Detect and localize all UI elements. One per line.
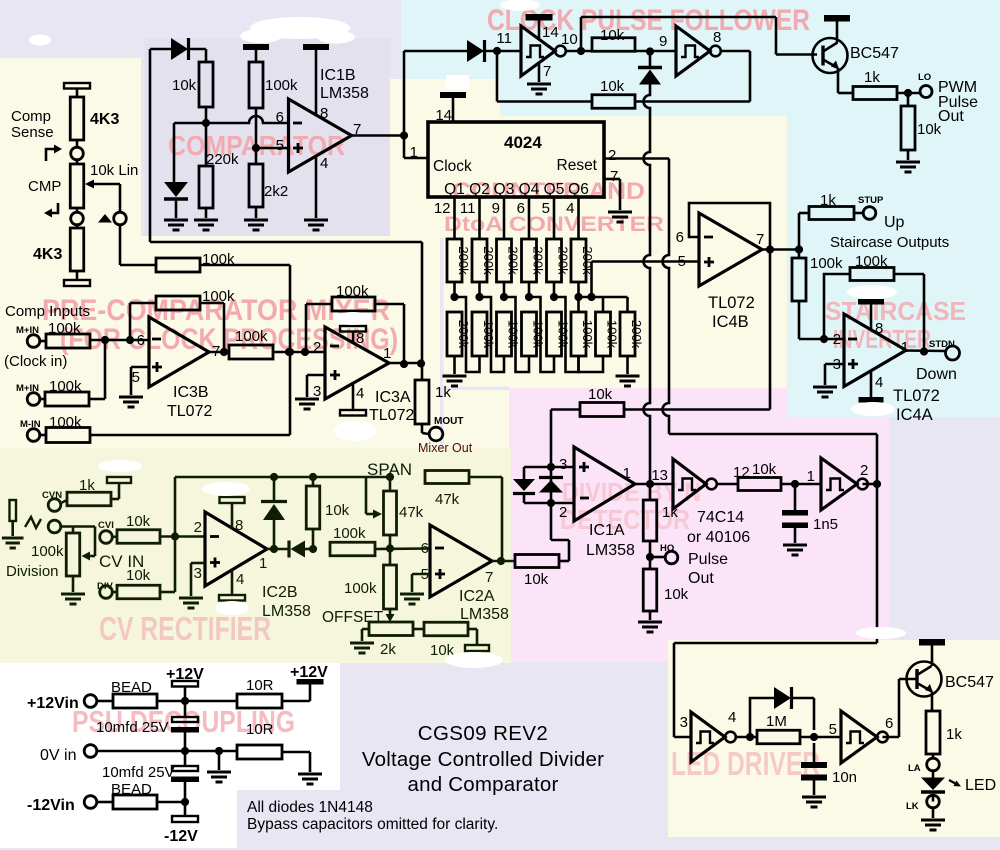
svg-text:-12V: -12V bbox=[164, 828, 198, 845]
svg-text:1k: 1k bbox=[864, 69, 880, 86]
svg-text:10k: 10k bbox=[325, 502, 350, 519]
svg-text:CMP: CMP bbox=[28, 178, 61, 195]
svg-text:4: 4 bbox=[236, 571, 244, 588]
svg-text:100k: 100k bbox=[556, 320, 571, 349]
svg-text:10R: 10R bbox=[246, 721, 274, 738]
svg-text:Bypass capacitors omitted for: Bypass capacitors omitted for clarity. bbox=[247, 816, 498, 833]
svg-text:74C14: 74C14 bbox=[697, 509, 744, 526]
svg-text:SPAN: SPAN bbox=[367, 460, 412, 479]
svg-text:8: 8 bbox=[235, 517, 243, 534]
svg-text:Out: Out bbox=[688, 570, 714, 587]
svg-text:Comp Inputs: Comp Inputs bbox=[5, 303, 90, 320]
svg-text:10k Lin: 10k Lin bbox=[90, 162, 138, 179]
svg-text:7: 7 bbox=[543, 63, 551, 80]
svg-text:4: 4 bbox=[875, 374, 883, 391]
svg-text:200k: 200k bbox=[506, 246, 521, 275]
svg-text:IC2B: IC2B bbox=[262, 584, 298, 601]
svg-text:1: 1 bbox=[259, 555, 267, 572]
svg-text:STAIRCASE: STAIRCASE bbox=[825, 296, 966, 326]
svg-text:6: 6 bbox=[517, 200, 525, 217]
svg-text:2k: 2k bbox=[380, 641, 396, 658]
svg-text:8: 8 bbox=[356, 330, 364, 347]
svg-text:BC547: BC547 bbox=[945, 674, 994, 691]
svg-text:+12V: +12V bbox=[290, 664, 328, 681]
svg-text:5: 5 bbox=[678, 253, 686, 270]
svg-text:IC4A: IC4A bbox=[896, 406, 933, 424]
svg-text:Sense: Sense bbox=[11, 124, 54, 141]
svg-text:IC3A: IC3A bbox=[375, 389, 411, 406]
svg-text:100k: 100k bbox=[531, 320, 546, 349]
svg-text:100k: 100k bbox=[31, 543, 64, 560]
svg-text:LM358: LM358 bbox=[586, 542, 635, 559]
svg-text:100k: 100k bbox=[605, 320, 620, 349]
svg-text:LO: LO bbox=[918, 72, 931, 83]
svg-text:or 40106: or 40106 bbox=[687, 529, 750, 546]
svg-text:47k: 47k bbox=[435, 491, 460, 508]
svg-text:10k: 10k bbox=[600, 78, 625, 95]
svg-text:2: 2 bbox=[833, 331, 841, 348]
svg-text:and Comparator: and Comparator bbox=[408, 773, 559, 796]
svg-text:LA: LA bbox=[908, 763, 921, 774]
svg-text:100k: 100k bbox=[265, 77, 298, 94]
svg-text:1k: 1k bbox=[820, 192, 836, 209]
svg-text:Q6: Q6 bbox=[568, 181, 589, 198]
svg-text:STDN: STDN bbox=[929, 339, 955, 350]
svg-text:Down: Down bbox=[916, 366, 957, 383]
svg-text:Q5: Q5 bbox=[544, 181, 565, 198]
svg-text:8: 8 bbox=[320, 105, 328, 122]
svg-text:Clock: Clock bbox=[433, 158, 472, 175]
svg-text:3: 3 bbox=[194, 565, 202, 582]
svg-text:4024: 4024 bbox=[504, 133, 542, 152]
svg-text:7: 7 bbox=[610, 168, 618, 185]
svg-text:1: 1 bbox=[383, 345, 391, 362]
svg-text:200k: 200k bbox=[556, 246, 571, 275]
svg-text:9: 9 bbox=[659, 33, 667, 50]
svg-text:5: 5 bbox=[276, 137, 284, 154]
svg-text:1k: 1k bbox=[435, 384, 451, 401]
svg-text:IC4B: IC4B bbox=[712, 313, 749, 331]
svg-text:Q2: Q2 bbox=[469, 181, 490, 198]
svg-text:LED: LED bbox=[965, 777, 996, 794]
svg-text:4K3: 4K3 bbox=[33, 246, 62, 263]
svg-text:TL072: TL072 bbox=[369, 407, 414, 424]
svg-text:10mfd 25V: 10mfd 25V bbox=[102, 764, 175, 781]
svg-text:1: 1 bbox=[410, 144, 418, 161]
svg-text:100k: 100k bbox=[235, 328, 268, 345]
svg-text:10k: 10k bbox=[588, 386, 613, 403]
svg-text:LED DRIVER: LED DRIVER bbox=[671, 745, 820, 782]
svg-text:100k: 100k bbox=[333, 525, 366, 542]
svg-text:6: 6 bbox=[421, 540, 429, 557]
svg-text:3: 3 bbox=[559, 456, 567, 473]
svg-text:OFFSET: OFFSET bbox=[322, 609, 384, 626]
svg-text:8: 8 bbox=[713, 29, 721, 46]
svg-text:7: 7 bbox=[485, 569, 493, 586]
svg-text:2: 2 bbox=[194, 519, 202, 536]
svg-text:Staircase Outputs: Staircase Outputs bbox=[830, 234, 949, 251]
svg-text:11: 11 bbox=[460, 200, 476, 217]
svg-text:14: 14 bbox=[542, 24, 559, 41]
svg-text:Reset: Reset bbox=[557, 157, 598, 174]
svg-text:100k: 100k bbox=[810, 255, 843, 272]
svg-text:5: 5 bbox=[132, 369, 140, 386]
svg-text:TL072: TL072 bbox=[708, 294, 755, 312]
svg-text:IC3B: IC3B bbox=[173, 384, 209, 401]
svg-text:1k: 1k bbox=[79, 477, 95, 494]
svg-text:IC1B: IC1B bbox=[320, 67, 356, 84]
svg-text:100k: 100k bbox=[481, 320, 496, 349]
svg-text:MOUT: MOUT bbox=[434, 416, 463, 427]
svg-text:4: 4 bbox=[320, 155, 328, 172]
svg-text:2: 2 bbox=[313, 339, 321, 356]
svg-text:All diodes 1N4148: All diodes 1N4148 bbox=[247, 799, 373, 816]
svg-text:-12Vin: -12Vin bbox=[27, 797, 75, 814]
svg-text:10k: 10k bbox=[172, 77, 197, 94]
svg-text:6: 6 bbox=[137, 332, 145, 349]
svg-text:CGS09 REV2: CGS09 REV2 bbox=[418, 722, 548, 745]
svg-text:Q1: Q1 bbox=[444, 181, 465, 198]
svg-text:11: 11 bbox=[496, 30, 512, 47]
svg-text:IC2A: IC2A bbox=[459, 588, 495, 605]
svg-text:5: 5 bbox=[542, 200, 550, 217]
svg-text:100k: 100k bbox=[344, 580, 377, 597]
svg-text:200k: 200k bbox=[481, 246, 496, 275]
svg-text:1n5: 1n5 bbox=[813, 516, 838, 533]
svg-text:Pulse: Pulse bbox=[688, 551, 728, 568]
svg-text:14: 14 bbox=[435, 107, 452, 124]
svg-text:100k: 100k bbox=[580, 320, 595, 349]
svg-text:Q4: Q4 bbox=[519, 181, 540, 198]
svg-text:12: 12 bbox=[434, 200, 451, 217]
svg-text:Up: Up bbox=[884, 214, 905, 231]
svg-text:2k2: 2k2 bbox=[264, 183, 288, 200]
svg-text:5: 5 bbox=[829, 721, 837, 738]
svg-text:10k: 10k bbox=[524, 571, 549, 588]
svg-text:STUP: STUP bbox=[858, 195, 884, 206]
svg-text:10k: 10k bbox=[917, 121, 942, 138]
svg-text:Q3: Q3 bbox=[494, 181, 515, 198]
svg-text:Comp: Comp bbox=[11, 108, 51, 125]
svg-text:IC1A: IC1A bbox=[589, 522, 625, 539]
svg-text:BC547: BC547 bbox=[850, 45, 899, 62]
svg-text:4K3: 4K3 bbox=[90, 111, 119, 128]
svg-text:10: 10 bbox=[561, 31, 578, 48]
svg-text:TL072: TL072 bbox=[893, 387, 940, 405]
svg-text:13: 13 bbox=[651, 467, 668, 484]
svg-text:0V in: 0V in bbox=[40, 747, 76, 764]
svg-text:10R: 10R bbox=[246, 677, 274, 694]
svg-text:3: 3 bbox=[680, 714, 688, 731]
svg-text:4: 4 bbox=[728, 709, 736, 726]
svg-text:10mfd 25V: 10mfd 25V bbox=[96, 719, 169, 736]
svg-text:10k: 10k bbox=[126, 513, 151, 530]
svg-text:TL072: TL072 bbox=[167, 403, 212, 420]
svg-text:Out: Out bbox=[938, 108, 964, 125]
svg-text:CV RECTIFIER: CV RECTIFIER bbox=[99, 610, 271, 647]
svg-text:Mixer Out: Mixer Out bbox=[418, 441, 473, 455]
svg-text:LM358: LM358 bbox=[460, 606, 509, 623]
svg-text:9: 9 bbox=[492, 200, 500, 217]
svg-text:Division: Division bbox=[6, 563, 59, 580]
svg-text:2: 2 bbox=[559, 504, 567, 521]
svg-text:Voltage Controlled Divider: Voltage Controlled Divider bbox=[362, 748, 604, 771]
svg-text:200k: 200k bbox=[456, 246, 471, 275]
svg-text:1k: 1k bbox=[946, 726, 962, 743]
svg-text:HO: HO bbox=[660, 543, 674, 554]
svg-text:6: 6 bbox=[885, 715, 893, 732]
svg-text:100k: 100k bbox=[855, 253, 888, 270]
svg-text:200k: 200k bbox=[531, 246, 546, 275]
svg-text:1: 1 bbox=[807, 468, 815, 485]
svg-text:10n: 10n bbox=[832, 769, 857, 786]
svg-text:(Clock in): (Clock in) bbox=[4, 353, 67, 370]
svg-text:10k: 10k bbox=[600, 27, 625, 44]
svg-text:3: 3 bbox=[313, 383, 321, 400]
svg-text:10k: 10k bbox=[664, 586, 689, 603]
svg-text:47k: 47k bbox=[399, 504, 424, 521]
svg-text:4: 4 bbox=[356, 385, 364, 402]
svg-text:100k: 100k bbox=[336, 283, 369, 300]
svg-text:LM358: LM358 bbox=[262, 603, 311, 620]
svg-text:LK: LK bbox=[906, 801, 919, 812]
svg-text:200k: 200k bbox=[456, 320, 471, 349]
svg-text:8: 8 bbox=[875, 320, 883, 337]
svg-text:10k: 10k bbox=[126, 567, 151, 584]
svg-text:100k: 100k bbox=[506, 320, 521, 349]
svg-text:6: 6 bbox=[276, 109, 284, 126]
svg-text:2: 2 bbox=[608, 147, 616, 164]
svg-text:1M: 1M bbox=[766, 713, 787, 730]
svg-text:200k: 200k bbox=[629, 320, 644, 349]
svg-text:+12Vin: +12Vin bbox=[27, 695, 79, 712]
svg-text:10k: 10k bbox=[752, 461, 777, 478]
svg-text:LM358: LM358 bbox=[320, 85, 369, 102]
svg-text:4: 4 bbox=[566, 200, 574, 217]
svg-text:7: 7 bbox=[756, 231, 764, 248]
svg-text:1: 1 bbox=[623, 465, 631, 482]
svg-text:2: 2 bbox=[860, 462, 868, 479]
svg-text:6: 6 bbox=[676, 229, 684, 246]
svg-text:1: 1 bbox=[901, 339, 909, 356]
